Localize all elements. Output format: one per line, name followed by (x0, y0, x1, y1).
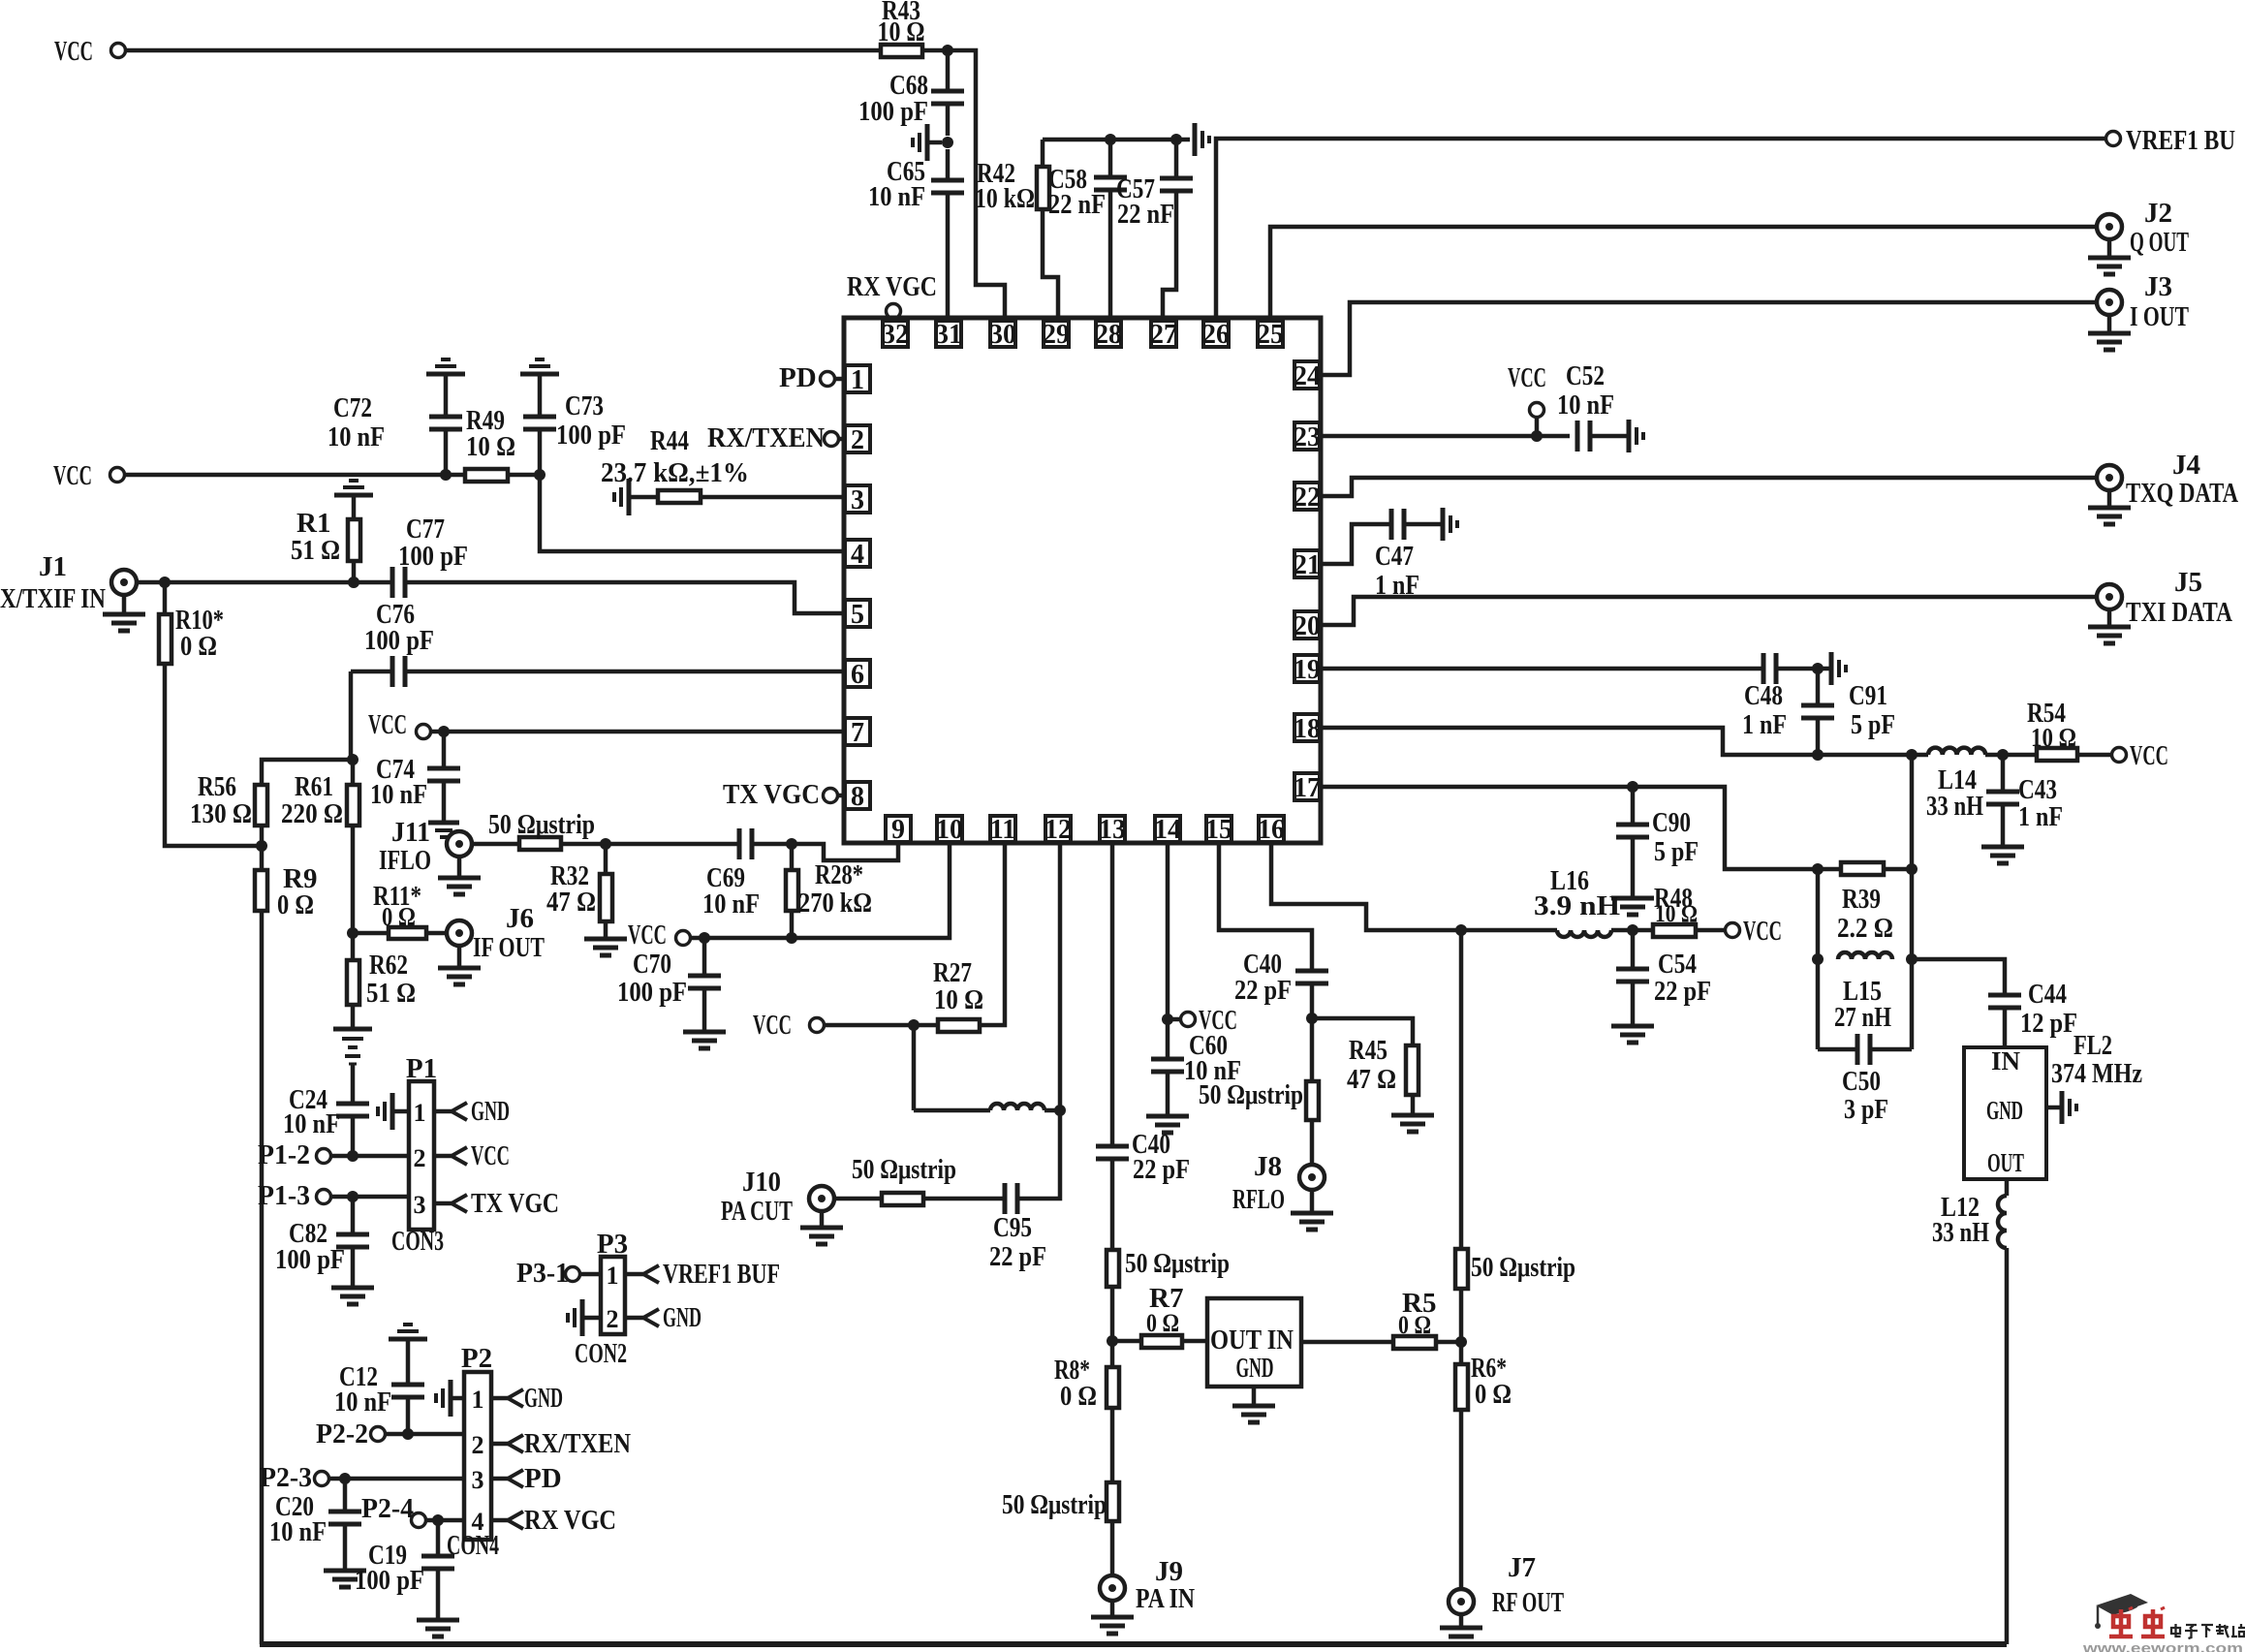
wire (2001, 755, 2006, 792)
pin 5 (845, 600, 870, 630)
wire pin6 net (405, 670, 844, 674)
wire (946, 193, 951, 321)
resistor R10* (159, 605, 224, 664)
svg-text:100 pF: 100 pF (617, 977, 687, 1008)
svg-text:VCC: VCC (2130, 740, 2168, 771)
resistor R8* (1054, 1355, 1119, 1412)
wire pin9 net (792, 842, 898, 860)
wire (1535, 417, 1540, 436)
wire (1043, 138, 1190, 142)
svg-text:OUT: OUT (1987, 1148, 2024, 1177)
pin 29 (1043, 320, 1070, 350)
capacitor C76 (364, 599, 434, 687)
connector J3 I OUT (2097, 271, 2189, 332)
svg-text:P3-1: P3-1 (516, 1258, 569, 1289)
wire (328, 1477, 464, 1481)
wire pin4 net (540, 475, 844, 551)
junction (402, 1428, 414, 1440)
pin 22 (1294, 483, 1321, 513)
capacitor C48 (1742, 653, 1787, 740)
junction (440, 469, 452, 481)
junction (786, 932, 797, 944)
junction (1054, 1105, 1066, 1116)
wire (922, 48, 948, 53)
ground (426, 359, 465, 374)
ground (913, 124, 942, 161)
wire (1016, 1110, 1060, 1199)
svg-text:PD: PD (524, 1463, 562, 1494)
pin 27 (1150, 320, 1177, 350)
node RX VGC (847, 271, 937, 323)
wire pin17 net (1322, 787, 1839, 869)
svg-text:22: 22 (1294, 483, 1321, 513)
resistor R44 23.7k (601, 425, 749, 503)
resistor R7 (1141, 1283, 1183, 1348)
svg-text:17: 17 (1294, 773, 1321, 803)
connector J7 RF OUT (1449, 1552, 1564, 1618)
wire (1631, 787, 1636, 825)
svg-text:GND: GND (1236, 1354, 1274, 1384)
svg-text:PA IN: PA IN (1136, 1583, 1195, 1614)
wire (330, 1195, 409, 1200)
resistor R11* (373, 881, 426, 939)
svg-text:VCC: VCC (471, 1140, 510, 1171)
connector J8 RFLO (1232, 1151, 1325, 1215)
wire (790, 844, 795, 870)
wire (629, 495, 658, 500)
pin PD of P2 (491, 1463, 562, 1494)
wire pin16 net (1271, 842, 1557, 930)
ground (2088, 239, 2131, 274)
pin 7 (845, 718, 870, 748)
wire (330, 1154, 409, 1159)
svg-text:130 Ω: 130 Ω (190, 798, 252, 829)
svg-text:47 Ω: 47 Ω (1347, 1064, 1396, 1095)
svg-text:50 Ωμstrip: 50 Ωμstrip (852, 1154, 956, 1185)
svg-text:IN: IN (1991, 1046, 2021, 1075)
wire (538, 374, 543, 416)
pin GND of P3 (625, 1302, 702, 1333)
IC U1 body (844, 318, 1321, 843)
capacitor C44 (1988, 979, 2077, 1039)
svg-text:TX VGC: TX VGC (471, 1188, 559, 1219)
junction (1627, 924, 1638, 936)
svg-text:FL2: FL2 (2074, 1030, 2112, 1061)
wire (1043, 209, 1058, 321)
capacitor C19 (355, 1540, 454, 1596)
wire (1910, 755, 1915, 1049)
svg-text:IF OUT: IF OUT (473, 932, 545, 963)
svg-text:21: 21 (1294, 550, 1321, 580)
svg-text:50 Ωμstrip: 50 Ωμstrip (1002, 1489, 1107, 1520)
svg-text:VCC: VCC (54, 36, 93, 67)
junction (1906, 749, 1918, 761)
resistor R39 (1837, 862, 1893, 944)
ground (1440, 1614, 1482, 1644)
svg-text:0 Ω: 0 Ω (1398, 1311, 1431, 1339)
microstrip 50ohm (PA lower) (1002, 1482, 1119, 1521)
inductor L14 (1926, 748, 1985, 822)
junction (1812, 863, 1824, 875)
svg-text:50 Ωμstrip: 50 Ωμstrip (1125, 1248, 1230, 1279)
wire pin18 net (1322, 728, 1928, 755)
svg-text:R62: R62 (369, 950, 408, 981)
wire (2005, 1179, 2010, 1196)
svg-text:10 nF: 10 nF (370, 779, 427, 810)
ground (1611, 898, 1654, 915)
svg-text:0 Ω: 0 Ω (277, 889, 314, 920)
wire (1696, 928, 1725, 933)
wire pin23 net (1322, 434, 1570, 439)
connector J5 TXI DATA (2097, 567, 2232, 628)
svg-text:6: 6 (851, 660, 864, 690)
svg-text:GND: GND (1986, 1096, 2023, 1125)
svg-text:0 Ω: 0 Ω (1060, 1381, 1097, 1412)
wire (946, 50, 951, 91)
ground (1091, 1601, 1134, 1634)
svg-text:C91: C91 (1849, 680, 1887, 711)
svg-text:RX VGC: RX VGC (847, 271, 937, 302)
wire (1312, 1018, 1413, 1045)
wire (1310, 1018, 1315, 1081)
resistor R6* (1455, 1353, 1512, 1410)
wire (1870, 1047, 1912, 1052)
wire (163, 582, 168, 614)
pin 28 (1095, 320, 1122, 350)
wire (351, 760, 356, 785)
svg-text:J5: J5 (2174, 567, 2202, 598)
ground (1981, 847, 2024, 863)
svg-text:100 pF: 100 pF (275, 1244, 345, 1275)
wire (1045, 1108, 1060, 1113)
wire pin3 net (701, 495, 844, 500)
svg-text:10 Ω: 10 Ω (1655, 901, 1698, 927)
capacitor C90 (1616, 807, 1699, 867)
junction (347, 754, 359, 765)
wire (385, 1432, 464, 1437)
svg-text:J7: J7 (1508, 1552, 1536, 1583)
svg-text:10 nF: 10 nF (327, 421, 385, 452)
junction (347, 1150, 359, 1162)
svg-text:100 pF: 100 pF (364, 625, 434, 656)
node RX/TXEN (707, 422, 839, 453)
svg-text:28: 28 (1095, 320, 1122, 350)
ground (2088, 315, 2131, 350)
svg-text:R28*: R28* (815, 859, 863, 890)
node P1-2 (258, 1139, 331, 1170)
wire pin19 net (1322, 667, 1762, 671)
svg-text:0 Ω: 0 Ω (1146, 1309, 1179, 1337)
ground (520, 359, 559, 374)
svg-text:X/TXIF IN: X/TXIF IN (0, 583, 106, 614)
svg-text:IFLO: IFLO (379, 845, 431, 876)
svg-text:18: 18 (1294, 714, 1321, 744)
wire pin5 net (405, 582, 844, 613)
wire (2046, 1106, 2060, 1110)
svg-text:10 nF: 10 nF (283, 1108, 340, 1139)
junction (600, 838, 611, 850)
wire pin12 net (1058, 842, 1063, 1110)
ground (1232, 1387, 1275, 1422)
junction (942, 137, 953, 148)
wire (1174, 140, 1179, 178)
wire (946, 149, 951, 180)
svg-text:C95: C95 (993, 1212, 1032, 1243)
wire TXI DATA net (1322, 597, 2097, 625)
ground (683, 1032, 726, 1048)
ground (2088, 609, 2131, 643)
wire (508, 473, 540, 478)
pin 12 (1045, 815, 1072, 845)
connector J10 PA CUT (721, 1167, 834, 1227)
svg-text:C48: C48 (1744, 680, 1783, 711)
svg-text:C90: C90 (1652, 807, 1691, 838)
capacitor C47 (1375, 509, 1419, 601)
svg-text:3: 3 (472, 1466, 484, 1494)
svg-text:12: 12 (1045, 815, 1072, 845)
svg-text:5 pF: 5 pF (1851, 709, 1895, 740)
svg-text:1: 1 (607, 1262, 619, 1290)
junction (1162, 1013, 1173, 1025)
svg-text:VCC: VCC (53, 460, 92, 491)
svg-text:GND: GND (524, 1383, 563, 1414)
ground (1629, 420, 1643, 452)
wire (2003, 1008, 2008, 1047)
junction (1812, 953, 1824, 965)
wire (1459, 1410, 1464, 1589)
wire pin14 net (1166, 842, 1170, 1059)
wire pin15 net (1219, 842, 1312, 971)
wire (1816, 669, 1821, 705)
wire (446, 473, 465, 478)
ground (1611, 1026, 1654, 1043)
resistor R28* (786, 859, 872, 919)
ground (438, 857, 481, 894)
svg-text:33 nH: 33 nH (1926, 791, 1983, 822)
ground (438, 946, 481, 984)
svg-text:CON2: CON2 (575, 1338, 627, 1369)
pin 14 (1154, 815, 1181, 845)
node P3-1 (516, 1258, 580, 1289)
svg-text:2.2 Ω: 2.2 Ω (1837, 913, 1893, 944)
svg-text:TXI DATA: TXI DATA (2126, 597, 2232, 628)
svg-text:10: 10 (936, 815, 963, 845)
svg-text:J2: J2 (2144, 198, 2172, 229)
svg-text:R44: R44 (650, 425, 689, 456)
wire (1884, 867, 1912, 872)
svg-text:10 nF: 10 nF (1184, 1055, 1241, 1086)
svg-text:RFLO: RFLO (1232, 1184, 1285, 1215)
pin 11 (990, 815, 1015, 845)
capacitor C77 (392, 514, 468, 598)
wire left frame (260, 911, 265, 1644)
wire (1110, 1521, 1115, 1575)
svg-text:10 nF: 10 nF (868, 181, 925, 212)
wire VREF1 BU net (1216, 139, 2105, 321)
wire (353, 931, 389, 936)
junction (1812, 749, 1824, 761)
svg-text:10 nF: 10 nF (334, 1387, 391, 1418)
wire (260, 846, 265, 870)
ground (324, 1571, 366, 1587)
resistor R62 (347, 950, 416, 1009)
svg-text:10 kΩ: 10 kΩ (975, 183, 1035, 214)
wire (137, 580, 391, 585)
wire (948, 50, 1005, 321)
svg-text:50 Ωμstrip: 50 Ωμstrip (1471, 1252, 1575, 1283)
resistor R61 (281, 771, 359, 829)
junction (256, 840, 267, 852)
wire (426, 931, 447, 936)
ground (334, 481, 373, 495)
wire (604, 921, 608, 939)
junction (1531, 430, 1543, 442)
microstrip 50ohm (PA upper) (1107, 1248, 1230, 1287)
junction (786, 838, 797, 850)
svg-text:J4: J4 (2172, 450, 2200, 481)
svg-text:J8: J8 (1254, 1151, 1282, 1182)
svg-text:VCC: VCC (368, 709, 407, 740)
pin 17 (1294, 773, 1321, 803)
resistor R56 (190, 771, 267, 829)
svg-text:1: 1 (851, 365, 864, 395)
node VREF1 BU (2106, 125, 2236, 156)
wire pin11 net (825, 842, 1005, 1025)
svg-text:1: 1 (472, 1386, 484, 1414)
junction (347, 1191, 359, 1202)
svg-text:C50: C50 (1842, 1066, 1881, 1097)
wire TXQ DATA net (1322, 478, 2097, 496)
capacitor C69 (702, 828, 760, 920)
svg-text:C72: C72 (333, 392, 372, 423)
wire (351, 1064, 356, 1104)
wire (1776, 667, 1816, 671)
inductor L16 (1534, 865, 1620, 937)
svg-text:P1: P1 (406, 1053, 437, 1084)
wire (838, 437, 844, 442)
wire (1985, 753, 2037, 758)
pin VCC of P1 (434, 1140, 510, 1171)
svg-text:PA CUT: PA CUT (721, 1196, 793, 1227)
wire pin7 net (431, 730, 844, 734)
junction (1455, 1336, 1467, 1348)
connector P3 CON2 (575, 1229, 628, 1369)
svg-text:270 kΩ: 270 kΩ (798, 888, 872, 919)
svg-text:5 pF: 5 pF (1654, 836, 1699, 867)
wire Q OUT net (1270, 227, 2097, 321)
svg-text:26: 26 (1202, 320, 1230, 350)
pin GND of P1 (434, 1096, 510, 1127)
ground (1818, 652, 1846, 685)
svg-text:TXQ DATA: TXQ DATA (2126, 478, 2238, 509)
svg-text:P2: P2 (461, 1343, 492, 1374)
pin 31 (935, 320, 962, 350)
wire (472, 842, 519, 847)
ground (417, 1620, 459, 1636)
capacitor C58 (1048, 164, 1127, 220)
wire (579, 1272, 601, 1277)
pin 23 (1294, 422, 1321, 452)
svg-text:RX/TXEN: RX/TXEN (524, 1428, 631, 1459)
junction (1306, 1013, 1318, 1024)
capacitor C70 (617, 949, 721, 1008)
connector P1 CON3 (391, 1053, 444, 1257)
capacitor C20 (269, 1491, 361, 1547)
resistor R49 (465, 405, 515, 482)
junction (1105, 134, 1116, 145)
svg-text:100 pF: 100 pF (398, 541, 468, 572)
connector J1 X/TXIF IN (0, 551, 137, 614)
pin 1 (845, 365, 870, 395)
pin 21 (1294, 550, 1321, 580)
svg-text:OUT IN: OUT IN (1210, 1325, 1294, 1356)
wire (1182, 1339, 1207, 1344)
pin GND of P2 (491, 1383, 563, 1414)
node P1-3 (258, 1180, 331, 1211)
svg-text:20: 20 (1294, 611, 1321, 641)
capacitor C72 (327, 392, 462, 452)
capacitor C73 (523, 390, 626, 451)
wire (1818, 1047, 1857, 1052)
svg-text:100 pF: 100 pF (858, 96, 928, 127)
svg-text:P2-2: P2-2 (316, 1418, 368, 1449)
wire (165, 664, 262, 846)
svg-text:CON4: CON4 (447, 1530, 499, 1561)
junction (438, 726, 450, 737)
node VCC (C74 feed) (368, 709, 431, 740)
svg-text:7: 7 (851, 718, 864, 748)
svg-text:1 nF: 1 nF (2018, 801, 2063, 832)
pin 15 (1205, 815, 1232, 845)
junction (1107, 1335, 1118, 1347)
wire (352, 561, 357, 582)
node VCC (C70 feed) (628, 920, 691, 951)
microstrip 50ohm (J8) (1199, 1079, 1319, 1120)
svg-text:23: 23 (1294, 422, 1321, 452)
svg-text:10 Ω: 10 Ω (934, 984, 983, 1015)
pin 13 (1099, 815, 1126, 845)
svg-text:16: 16 (1258, 815, 1285, 845)
ground (568, 1299, 601, 1336)
capacitor C60 (1151, 1030, 1241, 1086)
pin 25 (1257, 320, 1284, 350)
svg-text:29: 29 (1043, 320, 1070, 350)
junction (347, 927, 359, 939)
capacitor C24 (283, 1084, 369, 1139)
svg-text:Q OUT: Q OUT (2130, 227, 2189, 258)
wire (1310, 1120, 1315, 1165)
svg-text:VCC: VCC (628, 920, 667, 951)
junction (1627, 781, 1638, 793)
resistor R32 (546, 860, 612, 921)
wire (425, 1518, 464, 1523)
svg-text:5: 5 (851, 600, 864, 630)
svg-text:51 Ω: 51 Ω (291, 535, 340, 566)
ground (378, 1093, 409, 1130)
junction (942, 45, 953, 56)
svg-text:J3: J3 (2144, 271, 2172, 302)
svg-text:11: 11 (990, 815, 1015, 845)
svg-text:RF OUT: RF OUT (1492, 1587, 1564, 1618)
wire (406, 1397, 411, 1434)
microstrip 50ohm (RF out) (1455, 1249, 1575, 1289)
wire (260, 826, 265, 846)
wire (1110, 1159, 1115, 1250)
junction (1455, 924, 1467, 936)
capacitor C68 (858, 70, 964, 127)
capacitor C65 (868, 156, 964, 212)
node VCC (R48 feed) (1726, 916, 1783, 947)
